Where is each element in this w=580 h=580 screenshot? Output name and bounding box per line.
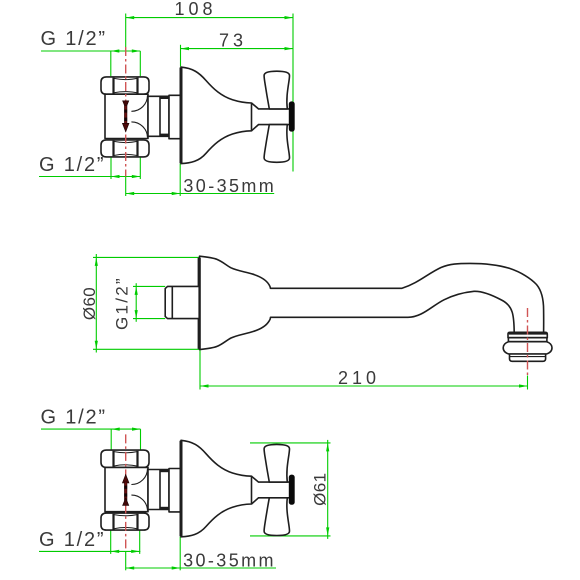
handle arm upper (bottom view) xyxy=(264,444,289,482)
dimension line 73 xyxy=(181,48,294,50)
leader line G 1/2 (bottom inlet) xyxy=(39,176,140,178)
flow arrow (down) xyxy=(123,101,129,109)
handle arm (upper) xyxy=(264,71,289,109)
aerator top ring xyxy=(508,332,547,337)
hex nut (top inlet, bottom view) xyxy=(101,450,149,467)
extension line at handle right end xyxy=(292,14,294,172)
extension tick at outlet centerline (210 right) xyxy=(527,376,529,390)
internal passage arc (lower) xyxy=(131,122,147,138)
dimension line D60 xyxy=(95,254,97,353)
hex nut facet lines (bottom) xyxy=(112,141,114,157)
dimension line G1/2 stub xyxy=(135,283,137,322)
svg-text:Ø60: Ø60 xyxy=(80,287,99,320)
svg-text:G 1/2”: G 1/2” xyxy=(39,529,105,551)
spout body outline xyxy=(200,256,544,349)
extension lines D61 xyxy=(250,442,331,444)
handle hub xyxy=(252,103,290,131)
svg-text:Ø61: Ø61 xyxy=(311,473,330,506)
sleeve xyxy=(169,95,181,138)
leader line G 1/2 (top inlet) xyxy=(41,428,141,430)
escutcheon bell (bottom view) xyxy=(181,440,252,537)
leader line G 1/2 (top inlet) xyxy=(41,50,140,52)
handle cap black (bottom view) xyxy=(289,475,295,505)
extension line at wall plane for 73 xyxy=(180,45,182,67)
extension line centerline xyxy=(125,551,127,570)
aerator bottom rim xyxy=(510,354,546,361)
leader line G 1/2 (bottom inlet) xyxy=(39,550,140,552)
tenon connector xyxy=(148,96,169,136)
extension lines G1/2 stub xyxy=(133,285,165,287)
hex nut (top inlet) xyxy=(101,77,149,94)
aerator bulge xyxy=(503,342,552,354)
internal passage arc (upper) xyxy=(131,95,147,111)
hex nut (bottom inlet) xyxy=(101,140,149,157)
hex nut (bottom inlet, bottom view) xyxy=(101,513,149,530)
extension line wall plane (bottom) xyxy=(179,164,181,196)
escutcheon wall edge (thick) xyxy=(180,68,183,164)
svg-text:G1/2”: G1/2” xyxy=(113,276,132,330)
flow arrow (up) xyxy=(122,474,129,483)
valve body xyxy=(105,94,148,138)
tenon connector (bottom view) xyxy=(148,470,169,510)
handle arm lower (bottom view) xyxy=(264,498,289,536)
svg-text:30-35mm: 30-35mm xyxy=(183,176,276,196)
svg-text:30-35mm: 30-35mm xyxy=(183,551,276,571)
svg-text:108: 108 xyxy=(174,0,216,19)
extension lines D60 xyxy=(93,256,199,258)
escutcheon bell xyxy=(181,67,252,164)
dimension line D61 xyxy=(327,440,329,539)
spout escutcheon wall edge (thick) xyxy=(198,258,201,349)
extension line centerline (bottom) xyxy=(125,177,127,197)
svg-text:G 1/2”: G 1/2” xyxy=(41,28,107,50)
dimension line 210 xyxy=(200,385,528,387)
extension line at wall plane (210 left) xyxy=(199,350,201,390)
valve centerline (red dash-dot) xyxy=(125,47,127,177)
svg-text:73: 73 xyxy=(219,30,247,50)
dimension line 30-35mm xyxy=(126,567,276,569)
svg-text:210: 210 xyxy=(338,368,380,388)
handle cap (black) xyxy=(289,101,295,131)
svg-text:G 1/2”: G 1/2” xyxy=(41,407,107,429)
dimension line 108 xyxy=(126,17,293,19)
handle hub (bottom view) xyxy=(252,476,290,504)
extension line at valve centerline (top) xyxy=(125,14,127,48)
sleeve (bottom view) xyxy=(169,469,181,512)
outlet centerline (red dash-dot) xyxy=(527,308,529,376)
handle arm (lower) xyxy=(264,125,289,163)
svg-text:G 1/2”: G 1/2” xyxy=(39,154,105,176)
aerator groove band xyxy=(508,338,547,342)
threaded stub xyxy=(165,286,199,318)
hex nut facet lines (top) xyxy=(112,78,114,94)
extension line wall plane xyxy=(179,537,181,571)
valve body (bottom view) xyxy=(105,467,148,511)
valve centerline (red dash-dot, bottom view) xyxy=(125,434,127,551)
dimension line 30-35mm xyxy=(126,193,275,195)
